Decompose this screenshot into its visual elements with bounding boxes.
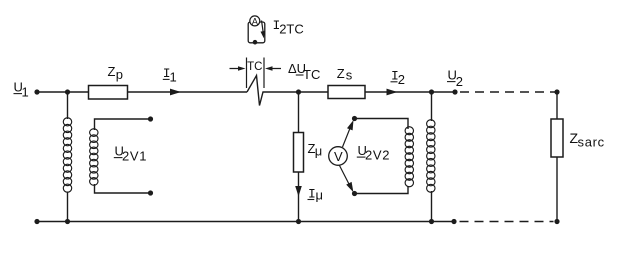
svg-text:A: A	[252, 16, 258, 26]
svg-text:Z: Z	[108, 64, 116, 79]
svg-text:2TC: 2TC	[279, 22, 304, 37]
svg-text:2V2: 2V2	[365, 148, 390, 163]
svg-text:sarc: sarc	[578, 134, 605, 149]
svg-text:Z: Z	[337, 66, 345, 81]
svg-text:1: 1	[170, 70, 177, 85]
svg-text:TC: TC	[247, 61, 262, 73]
svg-text:μ: μ	[315, 144, 323, 159]
svg-text:s: s	[346, 68, 353, 83]
svg-text:V: V	[334, 149, 343, 164]
svg-text:2: 2	[398, 72, 405, 87]
svg-text:p: p	[116, 67, 123, 82]
svg-text:μ: μ	[316, 188, 324, 203]
svg-text:1: 1	[22, 84, 29, 99]
svg-text:TC: TC	[303, 67, 320, 82]
svg-text:2V1: 2V1	[122, 149, 147, 164]
svg-text:2: 2	[456, 74, 463, 89]
